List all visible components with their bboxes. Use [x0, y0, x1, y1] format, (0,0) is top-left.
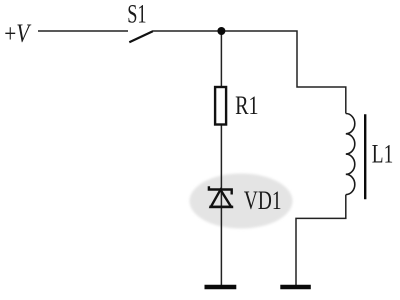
svg-text:R1: R1 [235, 91, 259, 120]
svg-text:L1: L1 [372, 140, 393, 168]
svg-text:S1: S1 [127, 0, 146, 28]
svg-text:VD1: VD1 [244, 186, 282, 214]
svg-text:+V: +V [4, 20, 31, 48]
